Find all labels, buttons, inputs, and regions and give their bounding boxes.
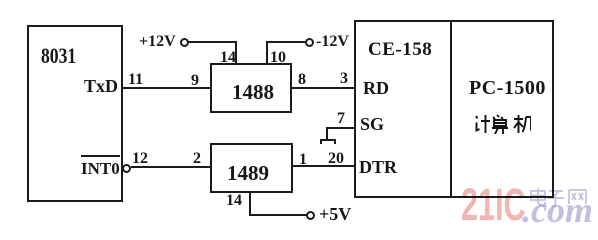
char suan [492,115,508,134]
pin number 3 [340,70,348,88]
watermark .com [522,189,593,231]
label +5V [319,204,351,225]
pin number 2 [193,150,201,168]
wire +12V horizontal [188,41,237,43]
IC U1 8031 microcontroller box [27,25,123,202]
wire INT0 pin12 to 1489 pin2 [131,166,211,168]
wire SG horizontal [327,127,355,129]
wire 1488 pin8 to CE-158 RD pin3 [292,87,355,89]
watermark 电子网 (drawn strokes) [528,187,592,207]
terminal -12V [305,38,314,47]
wire +5V horizontal [249,214,307,216]
watermark 21IC [461,179,526,231]
wire 1489 pin14 vertical [249,192,251,215]
pin number 14 (1489 VCC) [226,192,242,210]
char dian [531,188,545,205]
pin number 9 [191,72,199,90]
label 8031 [41,43,76,69]
char ji (wood+table) [514,115,534,133]
pin label RD [363,78,389,99]
wire SG vertical stem [326,127,328,140]
terminal +5V [306,211,315,220]
wire TxD pin11 to 1488 pin9 [123,87,211,89]
label 1489 [227,161,269,186]
pin number 12 [132,150,148,168]
pin number 1 [299,151,307,169]
interface CE-158 / computer PC-1500 outer box [354,20,554,198]
inverter bubble on INT0 pin 12 [122,164,131,173]
label PC-1500 [469,77,546,100]
wire 1488 pin14 vertical [235,41,237,64]
divider between CE-158 and PC-1500 [450,20,452,198]
label 1488 [232,80,274,105]
label +12V [139,33,176,51]
pin number 7 (SG) [337,110,345,128]
pin label SG [360,114,384,135]
char zi [548,191,564,206]
IC U3 1489 line receiver box [210,143,293,193]
pin label TxD [84,76,118,97]
pin number 8 [298,71,306,89]
IC U2 1488 line driver box [210,63,292,113]
char ji (speech+ten) [476,115,490,133]
char wang [569,190,586,204]
label -12V [316,33,349,51]
pin number 10 (1488 VEE-) [270,49,286,67]
wire 1488 pin10 vertical [266,41,268,64]
pin label INT0 (active low, overline) [81,155,120,177]
wire 1489 pin1 to CE-158 DTR pin20 [293,165,355,167]
terminal +12V [180,38,189,47]
pin number 14 (1488 VCC+) [220,49,236,67]
pin label DTR [359,157,397,178]
label 计算机 (computer, drawn strokes) [473,114,531,134]
pin number 11 [128,71,143,89]
ground symbol on SG [320,139,336,141]
label CE-158 [368,39,432,61]
pin number 20 [328,150,344,168]
wire -12V horizontal [266,41,306,43]
